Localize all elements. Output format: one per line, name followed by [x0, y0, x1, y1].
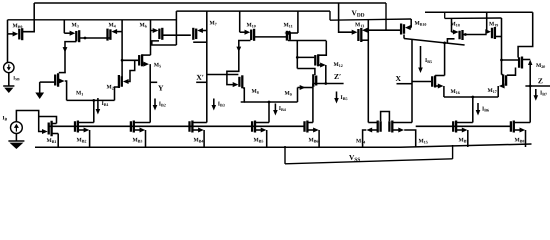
wire IB top route to MB1 gate [16, 111, 44, 132]
arrowhead into MB1 gate [42, 129, 48, 134]
wire M18-M19 gate tie [463, 34, 487, 36]
wire MB9 source down to ISB [7, 34, 9, 63]
wire M12 source down (Z' column) [325, 65, 327, 84]
transistor MB10 label [415, 21, 420, 25]
ground under ISB [3, 85, 14, 87]
wire M18 drain down [447, 39, 454, 43]
wire M1 source to tail [65, 81, 67, 100]
transistor M7 [206, 11, 208, 122]
wire tail of M1/M2 [67, 99, 115, 101]
node Z' stub [313, 83, 344, 85]
junction dot on tail1 [92, 99, 95, 102]
wire VDD drop to M20 [518, 12, 533, 57]
transistor MB4 [188, 121, 190, 132]
junction dot on Z stub [529, 85, 532, 88]
transistor MB2 [74, 121, 76, 132]
junction dot on Z' stub [324, 82, 327, 85]
wire M11 drain down branch [296, 41, 298, 69]
node X stub [397, 83, 413, 85]
node Y stub [150, 81, 157, 83]
wire line B step down at x=330 [329, 11, 331, 20]
wire MB6 drain up to Z' stub [312, 84, 314, 123]
wire bias line left (line C) [8, 19, 177, 21]
transistor M1 label [76, 91, 81, 95]
junction dot on M20 gate branch [500, 59, 503, 62]
wire X column [411, 39, 413, 122]
current arrow IB7 [535, 89, 537, 97]
node X' label [196, 75, 201, 80]
wire Z column down to MB8 drain [529, 86, 531, 123]
transistor M18 label [451, 22, 456, 26]
transistor M3 label [72, 23, 77, 27]
transistor M9 [315, 76, 317, 86]
wire M9 source down to tail [297, 88, 299, 103]
current arrowhead on M1 drain wire [63, 47, 68, 52]
current arrowhead on M10 drain wire [236, 47, 241, 52]
transistor MB10 [410, 19, 412, 28]
wire MB10 drain down to drain line [403, 35, 405, 39]
node X' stub [196, 81, 207, 83]
wire M10-M11 gate tie [254, 36, 286, 38]
transistor MB9 label [13, 24, 18, 28]
transistor M16 [412, 81, 431, 83]
wire M9 source lead [298, 87, 314, 89]
node Z label [538, 78, 542, 83]
transistor M10 [239, 11, 241, 32]
wire M9 gate from M11 drain [297, 69, 315, 76]
wire M6-M7 gate tie [162, 34, 191, 36]
wire M16 drain up [444, 43, 446, 76]
wire line B [176, 10, 330, 12]
wire M2 source to tail [115, 87, 119, 100]
transistor M19 [486, 12, 488, 31]
transistor M4 [121, 20, 123, 32]
junction dot on tail2 [268, 101, 271, 104]
wire bottom gate bus right [416, 125, 511, 127]
transistor M19 label [489, 22, 494, 26]
wire M17 source down to tail [497, 86, 499, 97]
transistor M4 label [109, 23, 114, 27]
arrowhead on MB10 gate lead into M13 [362, 28, 368, 33]
transistor M13 [339, 3, 354, 32]
current arrow IB5a [336, 92, 338, 100]
junction dot on M3 gate tie [84, 37, 87, 40]
current arrow IB5b [420, 46, 422, 69]
node Z' label [334, 74, 338, 79]
transistor M1 [40, 81, 55, 83]
wire M5 source down (Y branch) [149, 64, 151, 122]
wire tail of M16/M17 [444, 96, 498, 98]
wire M8 source to tail [241, 88, 245, 102]
wire tail down to MB5 drain [268, 102, 270, 123]
wire MB9 drain to VDD line A [22, 3, 34, 32]
wire line A drop at x=386 [385, 3, 387, 30]
transistor M20 source arrow up [528, 60, 532, 66]
transistor M15 [388, 121, 390, 132]
wire M10 drain down to M8 [227, 41, 251, 85]
node VDD label [352, 10, 357, 15]
transistor M2 [121, 76, 123, 87]
transistor M6 [150, 20, 152, 55]
wire IB to ground [15, 134, 17, 142]
wire tail down to MB7 drain [472, 97, 474, 123]
arrowhead on M9 source lead [300, 85, 306, 90]
transistor M13 label [355, 23, 360, 27]
current arrow IB4 [274, 104, 276, 112]
transistor MB5 [251, 121, 253, 132]
wire ISB to ground [8, 73, 10, 86]
node Y label [158, 86, 163, 91]
wire M16 source down to tail [443, 86, 445, 97]
transistor M11 [297, 11, 299, 33]
wire M6 drain route to line B drop [152, 41, 177, 45]
node X label [396, 76, 401, 81]
node VSS label [349, 155, 354, 160]
wire M17 gate to M20 source branch [507, 68, 516, 76]
transistor M17 label [488, 88, 493, 92]
transistor M3 [63, 20, 65, 33]
wire VSS lower parallel line [285, 159, 453, 164]
wire top line A [34, 2, 386, 4]
wire tail down to MB2 drain [93, 100, 95, 122]
transistor M8 label [252, 89, 257, 93]
current source IB [11, 122, 23, 134]
transistor MB8 [510, 121, 512, 132]
transistor M20 label [536, 63, 541, 67]
transistor MB7 [452, 121, 454, 132]
transistor M10 label [247, 23, 252, 27]
transistor M14 [379, 121, 381, 132]
transistor MB6 [303, 121, 305, 132]
arrowhead into M2 [123, 79, 129, 84]
wire VSS lower line left drop [284, 146, 286, 164]
junction dot on M18 gate tie [464, 33, 467, 36]
transistor M7 label [210, 21, 215, 25]
transistor M11 label [284, 23, 289, 27]
ground under IB [8, 140, 24, 142]
transistor M17 [505, 75, 507, 86]
current arrow IB1 [97, 98, 99, 111]
transistor M6 label [140, 23, 145, 27]
wire line B drop to M6/M7 gates [175, 11, 177, 45]
node Z stub [525, 85, 550, 87]
wire VSS rail [35, 146, 400, 148]
junction dot on drain line [443, 42, 446, 45]
ground arrow at M1 gate [39, 82, 41, 88]
transistor M5 label [154, 63, 159, 67]
transistor MB1 [48, 123, 50, 135]
arrowhead into M8 drain [233, 82, 239, 87]
transistor M9 label [285, 91, 290, 95]
current arrow IB6 [477, 103, 479, 112]
wire M19/M17 vertical [501, 18, 503, 75]
wire M20 gate line [502, 59, 519, 61]
wire M7 drain to X' column [193, 41, 207, 43]
transistor M5 [122, 59, 138, 61]
transistor M20 [518, 57, 520, 68]
transistor M18 [451, 18, 453, 32]
wire MB1 diode tie [39, 117, 57, 124]
wire tail of M8/M9 [244, 101, 297, 103]
wire M3-M4 gate tie [79, 37, 110, 39]
wire line E (right rail) [330, 19, 411, 20]
wire drain line (tilted) [404, 39, 465, 46]
current source IB label [3, 116, 5, 120]
transistor MB10 gate lead [365, 29, 401, 31]
wire M19 drain to diode vertical [496, 36, 502, 38]
wire M4 long vertical to M2 drain [121, 32, 123, 77]
transistor M12 [297, 56, 314, 58]
transistor M8 [207, 74, 239, 76]
current source ISB label [13, 76, 15, 79]
wire M13 drain to mid column [361, 39, 368, 41]
wire M11/M12 drain line [288, 40, 326, 42]
wire VSS lower line right rise [452, 145, 454, 159]
transistor MB3 [130, 121, 132, 132]
transistor M14 label [356, 139, 361, 143]
transistor M12 label [334, 62, 339, 66]
transistor M2 label [107, 85, 112, 89]
wire bottom gate bus left [49, 125, 305, 127]
transistor M16 label [451, 89, 456, 93]
transistor M15 label [419, 139, 424, 143]
current source ISB [4, 62, 14, 72]
wire line D (bias segment right) [445, 17, 502, 19]
wire line A-prime right segment [425, 11, 533, 13]
current arrow IB3 [213, 99, 215, 107]
current arrow IB2 [154, 99, 156, 107]
wire M14/M15 gate bridge [381, 112, 390, 122]
wire connector A-E at x=444.7 [444, 12, 446, 18]
transistor MB9 [7, 20, 9, 34]
wire M3 drain down [65, 42, 76, 73]
wire M2 arrow jog from M5 gate line [127, 60, 135, 81]
junction dot on M16/M17 tail [471, 96, 474, 99]
